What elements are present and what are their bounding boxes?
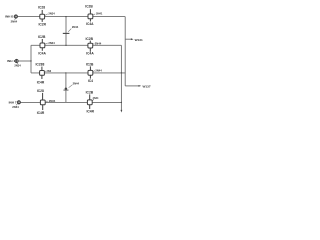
wire output tap W131	[125, 38, 131, 40]
capacitor bar on V2	[63, 89, 68, 91]
capacitor bar on V1	[63, 32, 70, 34]
wire input branch vertical	[30, 45, 32, 73]
component IC switch U3 row2 col1	[40, 39, 45, 51]
svg-text:IC28: IC28	[37, 89, 44, 93]
leader line label 2N34 U7	[45, 100, 48, 102]
wire bus A vertical right	[120, 45, 122, 110]
leader line label 2N44 U8	[92, 99, 94, 101]
svg-text:IC4A: IC4A	[86, 52, 94, 56]
svg-text:2N34: 2N34	[49, 99, 56, 103]
wire row2 horizontal	[31, 44, 121, 46]
svg-text:IC4R: IC4R	[37, 111, 45, 115]
svg-text:IC4: IC4	[88, 79, 93, 83]
leader line label 2N4 V2	[69, 85, 73, 88]
wire row4 horizontal	[21, 101, 122, 103]
leader line label 2N44 V1	[68, 29, 71, 32]
wire mid vertical V1 rows1-2	[65, 17, 67, 46]
input terminal INH 1	[15, 59, 18, 63]
input terminal INH 7	[17, 100, 20, 104]
svg-text:IC28: IC28	[38, 5, 45, 9]
svg-text:IC2B: IC2B	[38, 35, 46, 39]
junction node INH1 branch	[30, 60, 31, 61]
junction node row1/V1	[65, 16, 66, 17]
svg-text:IC2B: IC2B	[85, 37, 93, 41]
wire output arrow W137	[125, 85, 139, 87]
junction node row2/V1	[65, 45, 66, 46]
svg-text:INH B: INH B	[5, 15, 14, 19]
arrowhead bottom bus A	[121, 110, 123, 113]
svg-text:INH 7: INH 7	[9, 101, 17, 105]
svg-text:2N34: 2N34	[48, 12, 55, 16]
svg-text:2N44: 2N44	[72, 25, 79, 29]
svg-text:IC4R: IC4R	[37, 80, 45, 84]
svg-text:IC2B: IC2B	[85, 5, 93, 9]
wire INH1 stub	[18, 60, 31, 62]
svg-text:IC288: IC288	[35, 63, 44, 67]
svg-text:IC4A: IC4A	[38, 52, 46, 56]
wire row1 horizontal	[17, 16, 125, 18]
svg-text:IC2B: IC2B	[86, 91, 94, 95]
component IC switch U7 row4 col1	[40, 93, 45, 110]
junction node row3/busA	[121, 72, 122, 73]
component IC switch U1 row1 col1	[40, 10, 45, 22]
junction node row4/busA	[121, 102, 122, 103]
svg-text:2N44: 2N44	[95, 42, 102, 46]
leader line label 2N44 U6	[93, 71, 95, 72]
svg-text:2N3: 2N3	[47, 70, 52, 73]
svg-text:IC2B: IC2B	[86, 63, 94, 67]
svg-text:IC4A: IC4A	[86, 22, 94, 26]
leader line label 2N41 U2	[93, 14, 95, 15]
component IC switch U4 row2 col2	[88, 41, 93, 52]
input terminal INH B	[14, 14, 17, 18]
svg-text:2N44: 2N44	[93, 97, 99, 100]
wire mid vertical V2 rows3-4	[65, 73, 67, 103]
component IC switch U6 row3 col2	[88, 66, 93, 78]
svg-text:W131: W131	[135, 38, 143, 42]
contact dot on V2	[65, 87, 68, 90]
component IC switch U2 row1 col2	[88, 9, 93, 21]
svg-text:INH 1: INH 1	[7, 59, 15, 63]
svg-text:2N64: 2N64	[12, 105, 19, 109]
svg-text:2N34: 2N34	[14, 64, 21, 68]
leader line label 2N64 INH B	[15, 18, 16, 20]
leader line label 2N34 INH 1	[17, 63, 18, 65]
svg-text:IC2R: IC2R	[38, 22, 46, 26]
leader line label 2N34 U3	[45, 43, 48, 44]
leader line label 2N34 U1	[45, 14, 48, 16]
wire row3 horizontal	[31, 72, 126, 74]
arrowhead output W131	[131, 38, 134, 40]
svg-text:W137: W137	[142, 85, 150, 89]
arrowhead output W137	[139, 85, 142, 87]
svg-text:IC4R: IC4R	[86, 109, 94, 113]
leader line label 2N3 U5	[44, 70, 46, 73]
svg-text:2N64: 2N64	[11, 20, 18, 24]
leader line label 2N44 U4	[93, 43, 95, 46]
leader line label 2N64 INH 7	[16, 104, 18, 106]
junction node row3/V2	[65, 72, 66, 73]
svg-text:2N41: 2N41	[96, 12, 103, 16]
svg-text:2N44: 2N44	[95, 69, 102, 73]
wire bus B vertical right	[124, 17, 126, 86]
component IC switch U5 row3 col1	[40, 67, 45, 79]
svg-text:2N44: 2N44	[73, 81, 80, 85]
svg-text:2N34: 2N34	[48, 41, 55, 45]
component IC switch U8 row4 col2	[87, 94, 92, 109]
